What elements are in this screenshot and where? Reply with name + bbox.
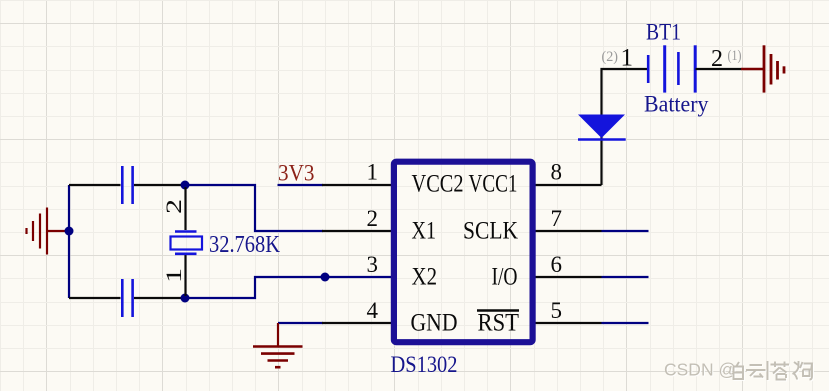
capacitor C1 pins [69,184,184,186]
svg-text:(2): (2) [602,49,619,65]
svg-text:CSDN @: CSDN @ [664,360,736,380]
wire from pin 7 [602,230,649,232]
wire from pin 5 [602,322,649,324]
crystal Y1 (32.768K) pins [184,187,186,296]
svg-text:X1: X1 [412,218,437,245]
svg-text:8: 8 [551,160,563,185]
node: junction at left ground [65,227,74,236]
pin 7 [536,230,602,232]
svg-text:32.768K: 32.768K [209,231,280,258]
ground left (power ground, dark red) [27,208,68,255]
svg-text:3V3: 3V3 [278,161,315,186]
svg-text:6: 6 [551,252,563,277]
node: junction top of crystal [181,181,190,190]
battery right pin [696,68,742,70]
pin 1 [322,184,391,186]
svg-text:2: 2 [161,199,186,214]
| [767,361,769,380]
watermark CSDN [664,360,737,381]
svg-text:1: 1 [161,268,186,283]
svg-text:1: 1 [621,45,634,72]
svg-text:BT1: BT1 [646,20,681,45]
IC body [394,162,533,343]
svg-text:SCLK: SCLK [463,218,518,245]
白 [734,362,744,379]
capacitor C2 plates [122,279,132,317]
svg-text:2: 2 [711,46,723,72]
capacitor C2 pins [69,297,184,299]
svg-text:VCC1: VCC1 [469,171,518,198]
svg-text:DS1302: DS1302 [391,352,458,378]
pin 2 [322,230,391,232]
pin 6 [536,276,602,278]
RST overline [477,309,519,311]
wire from pin 6 [602,276,649,278]
capacitor C1 plates [122,166,132,204]
pin 8 [536,184,602,186]
svg-text:5: 5 [551,298,563,323]
svg-text:7: 7 [551,206,563,231]
node: junction at X2 wire [321,273,330,282]
pin 4 [322,322,391,324]
pin 3 (net wire overlaps pin, navy) [322,276,391,278]
svg-text:X2: X2 [412,264,438,291]
svg-text:4: 4 [367,298,379,323]
node: junction bottom of crystal [181,294,190,303]
pin 5 [536,322,602,324]
狗 [793,361,813,380]
ground bottom (earth, dark red) [253,323,303,367]
wire 3V3 [278,184,324,186]
battery BT1 plates [648,45,695,92]
diode D1 [578,115,625,139]
crystal Y1 symbol [171,232,203,254]
云 [746,365,766,378]
svg-text:1: 1 [367,160,379,185]
svg-text:2: 2 [367,206,379,231]
svg-text:VCC2: VCC2 [412,171,464,198]
svg-text:Battery: Battery [644,92,709,117]
svg-text:RST: RST [478,310,520,337]
苍 [771,362,790,380]
wire: left vertical bus [68,185,70,298]
svg-text:I/O: I/O [492,264,518,291]
svg-text:GND: GND [411,310,458,337]
svg-text:(1): (1) [728,48,742,64]
watermark CJK glyphs [735,362,814,381]
ground right (power ground, dark red) [741,45,784,92]
wire pin8 up to battery [602,69,648,185]
wire: bottom junction to X2 pin [185,277,323,298]
wire GND [278,322,323,324]
svg-text:3: 3 [367,252,379,277]
wire: top junction to X1 pin [185,185,323,231]
